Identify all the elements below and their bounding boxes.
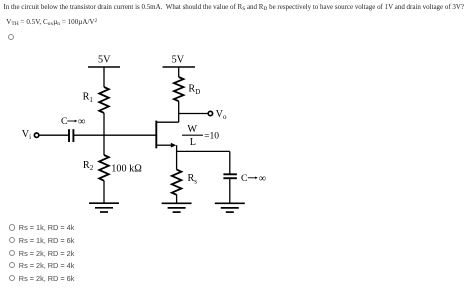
svg-text:5V: 5V — [172, 55, 185, 66]
svg-text:5V: 5V — [98, 55, 111, 66]
svg-text:R2: R2 — [83, 160, 94, 172]
resistor R2 — [99, 155, 109, 181]
ground right — [215, 203, 245, 212]
power +5V supply right — [163, 66, 196, 68]
svg-text:Rs: Rs — [188, 173, 198, 185]
svg-text:W: W — [187, 124, 197, 135]
transistor Q1 — [156, 121, 176, 149]
wire Vi to C1 — [39, 134, 69, 136]
wire source to C2 — [177, 150, 230, 152]
wire Rs to ground — [176, 195, 178, 204]
svg-text:=10: =10 — [204, 131, 219, 142]
wire drain lead to transistor — [156, 121, 178, 123]
wire supply to R1 — [103, 67, 105, 87]
radio option 1 — [9, 224, 15, 230]
wire C1 to gate — [73, 134, 156, 136]
svg-text:∞: ∞ — [259, 173, 267, 184]
resistor R1 — [99, 87, 109, 113]
radio option 2 — [9, 237, 15, 243]
capacitor C2 — [223, 174, 237, 178]
wire Vo branch — [179, 113, 208, 115]
ground middle — [162, 203, 192, 212]
svg-text:100 kΩ: 100 kΩ — [111, 163, 142, 174]
svg-text:∞: ∞ — [78, 116, 86, 127]
wire gate node to R2 — [103, 135, 105, 155]
label C to infinity (input) — [61, 116, 85, 127]
svg-text:L: L — [190, 137, 196, 148]
svg-text:Vi: Vi — [22, 129, 31, 141]
power +5V supply left — [88, 66, 120, 68]
wire R1 to gate node — [103, 113, 105, 135]
resistor Rs — [172, 170, 182, 195]
label W/L = 10 — [182, 124, 219, 148]
wire C2 to ground — [229, 178, 231, 203]
question line 1 — [4, 3, 465, 12]
wire source corner down — [176, 145, 178, 169]
svg-text:Vo: Vo — [216, 109, 227, 121]
wire C2 top — [229, 151, 231, 174]
svg-text:RD: RD — [188, 84, 200, 96]
question line 2 — [6, 18, 97, 27]
radio empty option — [8, 34, 14, 40]
wire supply to RD — [178, 67, 180, 77]
radio option 4 — [9, 262, 15, 268]
ground left — [89, 203, 119, 212]
wire RD to drain corner — [178, 101, 180, 122]
label C to infinity (bypass) — [241, 173, 266, 184]
terminal Vo — [208, 111, 212, 115]
svg-text:C: C — [61, 116, 68, 127]
radio option 5 — [9, 275, 15, 281]
resistor RD — [174, 77, 184, 101]
svg-text:C: C — [241, 173, 248, 184]
radio option 3 — [9, 250, 15, 256]
terminal Vi — [34, 133, 38, 137]
capacitor C1 — [69, 129, 73, 142]
wire R2 to ground — [103, 181, 105, 204]
svg-text:R1: R1 — [83, 92, 94, 104]
